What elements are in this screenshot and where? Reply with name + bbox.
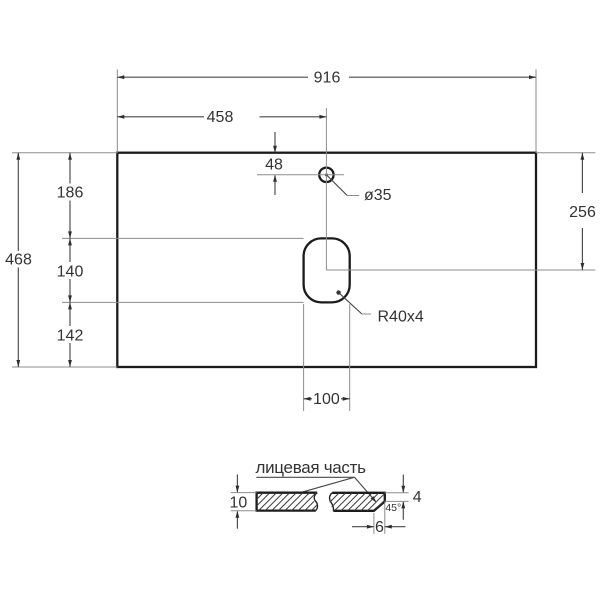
svg-text:186: 186 [57, 184, 84, 201]
dimension 458 [117, 109, 326, 126]
dimension 916 [117, 70, 536, 87]
dimension 186 [57, 153, 84, 239]
svg-text:140: 140 [57, 263, 84, 280]
centerline vertical [325, 108, 327, 270]
svg-text:10: 10 [230, 495, 248, 512]
svg-text:лицевая часть: лицевая часть [255, 458, 366, 477]
svg-text:100: 100 [313, 391, 340, 408]
svg-text:256: 256 [569, 204, 596, 221]
section left piece hatching [244, 491, 338, 512]
dimension 140 [57, 238, 84, 302]
extension line left vertical (916/458) [116, 70, 118, 153]
svg-text:468: 468 [5, 252, 32, 269]
centerline through hole [257, 174, 344, 176]
dimension 142 [57, 302, 84, 367]
extension line right vertical (916) [535, 70, 537, 153]
dimension 4 (chamfer height) [385, 475, 422, 520]
dimension 10 (thickness) [230, 475, 257, 529]
svg-text:916: 916 [314, 70, 341, 87]
svg-text:ø35: ø35 [364, 187, 392, 204]
extension line top-right horizontal (256) [536, 152, 595, 154]
svg-text:458: 458 [207, 109, 234, 126]
svg-text:45°: 45° [385, 502, 401, 514]
svg-text:48: 48 [265, 157, 283, 174]
leader R40x4 [336, 290, 423, 325]
extension line cutout bottom to left [62, 301, 304, 303]
faucet hole ø35 [319, 168, 333, 182]
dimension 48 [265, 132, 283, 195]
extension line top-left horizontal (468) [12, 152, 117, 154]
svg-text:4: 4 [413, 489, 422, 506]
countertop outline (plan view) [117, 153, 536, 367]
section label: лицевая часть [255, 458, 378, 504]
section right piece outline [330, 493, 385, 511]
svg-text:R40x4: R40x4 [378, 309, 424, 326]
extension line bottom-left horizontal (468) [12, 366, 117, 368]
svg-text:142: 142 [57, 327, 84, 344]
dimension 468 [5, 153, 32, 367]
section right piece hatching [320, 491, 400, 512]
basin cutout R40x4 [304, 238, 350, 302]
dimension 100 [304, 304, 350, 411]
leader ø35 [326, 175, 391, 204]
dimension 6 (chamfer width) [352, 502, 405, 536]
extension line cutout top to left [62, 237, 304, 239]
extension line cutout center to right [326, 269, 595, 271]
svg-text:6: 6 [375, 519, 384, 536]
label 45° [385, 502, 401, 514]
section left piece outline [257, 493, 318, 511]
dimension 256 [569, 153, 596, 270]
